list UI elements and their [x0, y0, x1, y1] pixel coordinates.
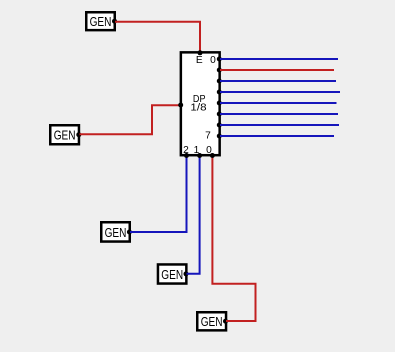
pin dot select 0 (bottom)	[210, 153, 215, 158]
svg-text:GEN: GEN	[201, 314, 223, 329]
generator GEN3 (bottom left)	[101, 222, 130, 241]
generator GEN2 (left)	[50, 125, 79, 144]
pin dot GEN1 output	[112, 19, 117, 24]
svg-text:GEN: GEN	[105, 225, 127, 240]
wire output 5 (blue)	[220, 113, 338, 115]
wire GEN5 to select pin 0 (red)	[212, 157, 255, 321]
pin dot GEN5 output	[223, 319, 228, 324]
demultiplexer U1 DP 1/8 body	[181, 52, 220, 155]
wire output 6 (blue)	[220, 124, 339, 126]
pin dot select 1 (bottom)	[197, 153, 202, 158]
generator GEN5 (bottom right)	[197, 312, 226, 330]
generator GEN4 (bottom middle)	[158, 264, 186, 283]
svg-text:GEN: GEN	[90, 14, 112, 29]
svg-text:GEN: GEN	[54, 128, 76, 143]
pin dot output 5	[217, 112, 222, 117]
wire output 7 (blue)	[220, 135, 334, 137]
pin dot GEN3 output	[127, 230, 132, 235]
pin dot select 2 (bottom)	[184, 153, 189, 158]
wire output 2 (blue)	[220, 80, 336, 82]
pin dot GEN2 output	[76, 132, 81, 137]
svg-text:7: 7	[205, 131, 211, 142]
pin dot output 1	[217, 68, 222, 73]
generator GEN1 (top)	[86, 12, 115, 30]
wire GEN3 to select pin 2 (blue)	[130, 157, 187, 232]
wire output 4 (blue)	[220, 102, 337, 104]
wire output 1 (red, active)	[220, 69, 334, 71]
pin dot output 0	[217, 57, 222, 62]
wire output 0 (blue)	[220, 58, 338, 60]
pin dot output 6	[217, 123, 222, 128]
pin dot data input (left)	[178, 103, 183, 108]
wire output 3 (blue)	[220, 91, 340, 93]
svg-text:0: 0	[210, 55, 216, 66]
svg-text:GEN: GEN	[161, 267, 183, 282]
wire GEN4 to select pin 1 (blue)	[187, 157, 200, 274]
pin dot E (top)	[198, 50, 203, 55]
pin dot output 3	[217, 90, 222, 95]
wire GEN2 to DP data input (red)	[80, 105, 181, 134]
pin dot output 2	[217, 79, 222, 84]
svg-text:E: E	[196, 55, 203, 66]
pin dot GEN4 output	[184, 271, 189, 276]
pin dot output 7	[217, 134, 222, 139]
pin dot output 4	[217, 101, 222, 106]
wire GEN1 to E pin (red)	[115, 22, 200, 53]
svg-text:1/8: 1/8	[190, 103, 206, 114]
